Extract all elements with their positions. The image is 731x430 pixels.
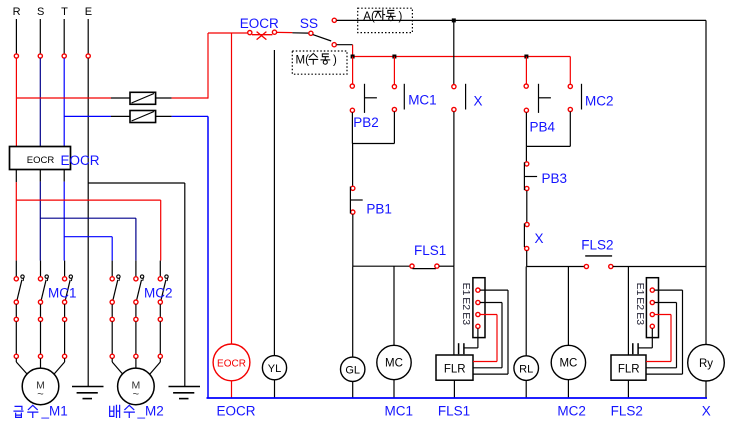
label SS [300, 16, 318, 31]
wire YL branch [273, 50, 275, 356]
wire PB3 to X NC [526, 191, 528, 223]
wire RL to rail [525, 380, 527, 398]
svg-text:MC2: MC2 [557, 404, 586, 419]
label X contact top [474, 94, 483, 109]
wire MC1 coil branch [393, 266, 395, 345]
wire GL to rail [352, 382, 354, 399]
label E1 tank2 [634, 283, 646, 296]
wire E4 common [464, 328, 478, 348]
svg-text:E1: E1 [460, 283, 472, 296]
terminal E1 tank2 [650, 288, 654, 292]
wire FLR1 to rail [453, 380, 455, 398]
svg-text:MC: MC [385, 358, 403, 370]
svg-text:E1: E1 [634, 283, 646, 296]
terminal E2 tank2 [650, 300, 654, 304]
wire SS to M line [337, 45, 353, 57]
pushbutton PB3 (NC) [524, 162, 537, 191]
svg-text:X: X [702, 404, 711, 419]
wire R below EOCR box [15, 170, 17, 261]
label EOCR bottom [217, 404, 256, 419]
svg-text:_M2: _M2 [137, 404, 164, 419]
relay Ry [688, 344, 725, 381]
terminal S [38, 54, 42, 58]
coil MC2 [551, 345, 585, 379]
node M junction 3 [524, 55, 528, 59]
node R [13, 6, 21, 18]
terminal E4 tank1 [476, 324, 480, 328]
terminal E2 tank1 [476, 300, 480, 304]
label FLS2 bottom [611, 404, 643, 419]
wire left rail (blue) [207, 116, 209, 398]
svg-text:FLS2: FLS2 [581, 238, 613, 253]
wire R tap to M2 branch [16, 200, 160, 261]
label FLS2 [581, 238, 613, 253]
svg-text:FLR: FLR [618, 364, 640, 376]
wire MC2 coil branch [567, 267, 569, 346]
svg-text:X: X [535, 231, 544, 246]
svg-text:SS: SS [300, 16, 318, 31]
wire T incoming [63, 19, 65, 54]
wire control hot to EOCR contact [208, 32, 250, 34]
svg-text:FLR: FLR [444, 364, 466, 376]
svg-text:~: ~ [37, 389, 43, 401]
svg-text:GL: GL [345, 365, 360, 377]
lamp GL [341, 357, 365, 381]
svg-text:PB2: PB2 [353, 115, 379, 130]
wire T tap to M2 branch [64, 237, 112, 261]
pushbutton PB2 (NO) [350, 84, 377, 113]
label motor M1 [14, 404, 68, 419]
svg-text:RL: RL [519, 363, 533, 375]
pushbutton PB4 (NO) [524, 84, 551, 113]
wire E3 to FLR1 (red) [473, 315, 497, 362]
label E3 tank2 [634, 312, 646, 325]
contactor MC2 pole 3 [158, 261, 168, 359]
wire T below EOCR box [63, 170, 65, 261]
relay FLR2 (floatless level relay) [611, 355, 646, 380]
label MC1 bottom [385, 404, 414, 419]
label FLS1 [414, 243, 446, 258]
wire M line to MC2 aux [569, 57, 571, 85]
svg-text:EOCR: EOCR [217, 404, 256, 419]
wire E1 to FLR1 [473, 290, 508, 374]
svg-text:FLS1: FLS1 [414, 243, 446, 258]
contactor MC2 pole 1 [110, 261, 120, 359]
terminal R [14, 54, 18, 58]
electrode holder E1 E2 E3 (tank 1) [473, 278, 485, 338]
wire E2 to FLR1 [473, 303, 502, 368]
lamp YL [262, 356, 286, 380]
wire fuse F1 to control rail corner [156, 33, 208, 99]
svg-text:R: R [13, 6, 21, 18]
coil EOCR [213, 344, 250, 381]
svg-text:E3: E3 [460, 312, 472, 325]
svg-text:MC2: MC2 [585, 94, 614, 109]
label MC2 contactor [144, 286, 173, 301]
contact FLS1 (float switch, closed) [353, 264, 454, 269]
wire Ry to rail [705, 381, 707, 398]
electrode gap bars tank2 [633, 343, 638, 354]
node E [85, 6, 92, 18]
wire control neutral from T [64, 115, 130, 117]
svg-text:M(: M( [296, 55, 310, 67]
label EOCR contact [240, 16, 279, 31]
wire EOCR coil branch [231, 33, 233, 344]
svg-text:~: ~ [133, 389, 139, 401]
wire S incoming [39, 19, 41, 54]
wire PB4 bottom [525, 112, 527, 146]
wire MC2 coil to rail [567, 380, 569, 398]
wire M manual line [353, 56, 571, 58]
wire GL branch [352, 266, 354, 357]
svg-text:EOCR: EOCR [240, 16, 279, 31]
contact X (NO) [452, 84, 466, 112]
wire EOCR contact to SS [277, 31, 309, 34]
svg-text:PB3: PB3 [542, 171, 568, 186]
wire A auto line [337, 19, 706, 21]
contactor MC1 pole 1 [14, 261, 24, 359]
contactor MC1 pole 3 [63, 261, 73, 359]
wire PB4 to PB3 [525, 146, 527, 161]
svg-text:EOCR: EOCR [217, 358, 246, 369]
label PB2 [353, 115, 379, 130]
node M junction 2 [392, 55, 396, 59]
label E2 tank2 [634, 297, 646, 310]
wire E down to ground G1 [87, 58, 89, 386]
lamp RL [514, 356, 539, 381]
pushbutton PB1 (NC) [350, 186, 362, 214]
wire E tap to ground G2 [88, 183, 185, 387]
coil MC1 [377, 345, 411, 379]
wire YL to rail [274, 380, 276, 398]
label PB3 [542, 171, 568, 186]
contact MC2 aux (NO) [568, 84, 581, 112]
svg-text:E3: E3 [634, 312, 646, 325]
node A junction [452, 18, 456, 22]
svg-text:PB1: PB1 [366, 202, 392, 217]
wire MC2 aux bottom [526, 112, 570, 147]
box label A(auto) [358, 8, 413, 32]
wire PB2 to PB1 [352, 144, 354, 187]
contact X (NC) [524, 222, 529, 250]
wire E2 to FLR2 [646, 303, 677, 368]
wire X NC to FLS2 row [526, 251, 528, 267]
svg-text:EOCR: EOCR [61, 153, 100, 168]
terminal E3 tank2 [650, 312, 654, 316]
wire FLR2 to rail [627, 380, 629, 398]
wire PB1 to FLS1 junction [352, 214, 354, 266]
node M junction 1 [351, 55, 355, 59]
contact MC1 aux (NO) [392, 84, 404, 112]
svg-text:MC2: MC2 [144, 286, 173, 301]
label EOCR blue [61, 153, 100, 168]
svg-text:E: E [85, 6, 92, 18]
svg-text:EOCR: EOCR [27, 155, 55, 166]
wire control hot from R [16, 97, 130, 99]
fuse F2 [130, 111, 156, 123]
wire PB2 bottom [351, 112, 353, 143]
svg-text:): ) [333, 55, 337, 67]
wire fuse F2 to left rail [156, 115, 208, 117]
wire M line to MC1 aux [393, 57, 395, 85]
wire EOCR coil to rail [231, 381, 233, 398]
svg-text:MC1: MC1 [385, 404, 414, 419]
wire S below EOCR box [39, 170, 41, 261]
svg-text:PB4: PB4 [530, 120, 556, 135]
wire A line to Ry [705, 20, 707, 344]
wire bottom rail (blue) [207, 397, 708, 399]
switch SS selector [309, 18, 337, 47]
label E1 [460, 283, 472, 296]
terminal E [86, 54, 90, 58]
wire FLS1 to FLR1 [453, 266, 455, 355]
terminal E4 tank2 [650, 324, 654, 328]
label E2 [460, 297, 472, 310]
wire S phase down to EOCR box [39, 58, 41, 146]
label PB4 [530, 120, 556, 135]
electrode holder E1 E2 E3 (tank 2) [646, 278, 658, 338]
contactor MC2 pole 2 [134, 261, 144, 359]
svg-text:_M1: _M1 [41, 404, 68, 419]
svg-text:MC: MC [559, 358, 577, 370]
wire MC1 aux bottom [352, 112, 394, 144]
label X bottom [702, 404, 711, 419]
wire E incoming [87, 19, 89, 54]
motor M2 [112, 358, 160, 404]
wire T phase down to EOCR box [63, 58, 65, 146]
label MC1 aux [408, 93, 437, 108]
node T [61, 6, 68, 18]
wire A line to X contact [453, 20, 455, 84]
wire R phase down to EOCR box [15, 58, 17, 146]
contact EOCR trip (NC with X) [248, 30, 277, 39]
label MC2 aux [585, 94, 614, 109]
label MC2 bottom [557, 404, 586, 419]
svg-text:MC1: MC1 [408, 93, 437, 108]
contactor MC1 pole 2 [38, 261, 48, 359]
ground G2 [169, 387, 201, 399]
svg-text:): ) [399, 11, 403, 23]
wire E3 to FLR2 (red) [646, 315, 671, 362]
wire FLS2 to FLR2 [627, 267, 629, 356]
svg-text:MC1: MC1 [48, 286, 77, 301]
fuse F1 [130, 92, 156, 104]
terminal E1 tank1 [476, 288, 480, 292]
svg-text:E2: E2 [460, 297, 472, 310]
ground G1 [72, 387, 104, 399]
motor M1 [16, 358, 64, 404]
svg-text:YL: YL [268, 363, 281, 375]
label MC1 contactor [48, 286, 77, 301]
relay EOCR (overcurrent relay block) [10, 147, 71, 170]
svg-text:FLS1: FLS1 [438, 404, 470, 419]
svg-text:S: S [37, 6, 44, 18]
label motor M2 [110, 404, 164, 419]
node S [37, 6, 44, 18]
wire E4 common tank2 [638, 328, 652, 348]
svg-text:Ry: Ry [699, 358, 713, 370]
electrode gap bars tank1 [459, 343, 464, 354]
svg-text:T: T [61, 6, 68, 18]
wire M line to PB2 [352, 57, 354, 85]
wire M line to PB4 [525, 57, 527, 85]
wire S tap to M2 branch [40, 218, 136, 260]
terminal E3 tank1 [476, 312, 480, 316]
svg-text:E2: E2 [634, 297, 646, 310]
label X NC [535, 231, 544, 246]
wire X contact to FLS1 [453, 112, 455, 267]
svg-text:X: X [474, 94, 483, 109]
svg-text:A(: A( [363, 11, 375, 23]
svg-text:FLS2: FLS2 [611, 404, 643, 419]
wire RL branch [525, 267, 527, 356]
terminal T [62, 54, 66, 58]
relay FLR1 (floatless level relay) [436, 355, 473, 380]
wire E1 to FLR2 [646, 290, 683, 374]
contact FLS2 (float switch, open) [527, 256, 706, 269]
wire MC1 coil to rail [393, 380, 395, 398]
box label M(manual) [292, 51, 347, 74]
label PB1 [366, 202, 392, 217]
label FLS1 bottom [438, 404, 470, 419]
label E3 [460, 312, 472, 325]
wire R incoming [15, 19, 17, 54]
